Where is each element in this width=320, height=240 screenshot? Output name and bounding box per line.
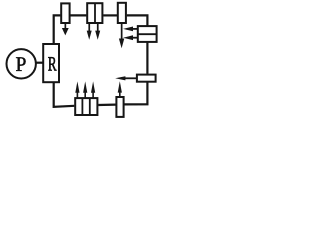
wire: C to top-right corner down to box D bbox=[127, 15, 148, 25]
arrow up 1 above F bbox=[77, 92, 79, 99]
wire: G to F bbox=[98, 103, 115, 106]
arrow left lower from D bbox=[131, 37, 137, 39]
arrow left from E bbox=[125, 77, 136, 79]
label P (pump) bbox=[16, 57, 25, 71]
arrow down below C bbox=[121, 24, 123, 40]
divider 1 of F bbox=[81, 98, 83, 115]
wire: E bottom to bottom-right corner to G bbox=[125, 82, 148, 104]
arrow up 2 above F bbox=[84, 92, 86, 99]
arrow down 1 below B bbox=[88, 24, 90, 32]
arrow up above G bbox=[119, 92, 121, 98]
box G (bottom single box) bbox=[116, 97, 123, 117]
pump P circle bbox=[7, 49, 36, 78]
arrow down below A bbox=[65, 24, 67, 30]
wire: B to C bbox=[103, 14, 117, 16]
label R (vessel) bbox=[48, 57, 56, 70]
exchanger C (top-right single box) bbox=[118, 3, 126, 23]
wire: R top to top-left corner to exchanger A bbox=[54, 15, 61, 43]
exchanger A (top single box) bbox=[61, 3, 69, 23]
divider of B bbox=[94, 3, 96, 23]
divider of D bbox=[137, 33, 157, 35]
exchanger B (top double box) bbox=[87, 3, 102, 23]
exchanger F (bottom triple box) bbox=[75, 98, 97, 115]
arrow left upper from D bbox=[131, 28, 137, 30]
arrow down 2 below B bbox=[97, 24, 99, 32]
divider 2 of F bbox=[89, 98, 91, 115]
box E (right horizontal box) bbox=[137, 75, 156, 82]
wire: pump P to vessel R bbox=[37, 62, 43, 64]
box D (right two-row box) bbox=[138, 26, 157, 42]
wire: F to bottom-left corner up to R bottom bbox=[54, 83, 75, 107]
wire: A to B bbox=[70, 14, 86, 16]
wire: D bottom to E top bbox=[146, 43, 148, 74]
vessel R box bbox=[43, 44, 59, 82]
arrow up 3 above F bbox=[92, 92, 94, 99]
